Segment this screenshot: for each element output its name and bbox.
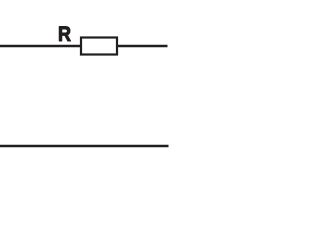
svg-text:R: R — [58, 22, 71, 46]
wire — [0, 145, 169, 147]
resistor R — [81, 38, 117, 55]
wire — [117, 45, 168, 47]
wire — [0, 45, 81, 47]
